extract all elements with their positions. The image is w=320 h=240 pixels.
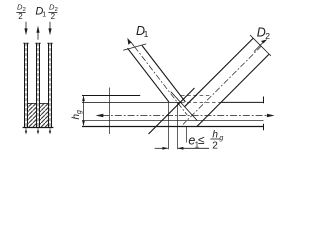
small reaction arrow middle bbox=[37, 128, 39, 134]
chord bottom edge bbox=[82, 126, 264, 128]
brace D2 bbox=[149, 35, 271, 134]
label e1 <= hg/2 bbox=[188, 129, 223, 151]
plate member middle (D1) bbox=[37, 43, 40, 128]
svg-text:2: 2 bbox=[51, 12, 56, 21]
svg-text:2: 2 bbox=[18, 12, 23, 21]
force arrow up middle bbox=[36, 26, 39, 40]
small reaction arrow left bbox=[25, 128, 27, 134]
svg-text:≤: ≤ bbox=[198, 133, 205, 147]
chord right end bbox=[263, 97, 265, 104]
svg-text:1: 1 bbox=[144, 29, 149, 39]
chord top edge bbox=[82, 95, 211, 97]
member top caps bbox=[23, 42, 52, 44]
svg-text:2: 2 bbox=[212, 140, 218, 151]
plate member right (D2/2) bbox=[49, 43, 52, 128]
station tick on chord bbox=[109, 88, 111, 135]
hatched packing plate left bbox=[28, 103, 37, 128]
label D1 center bbox=[35, 5, 46, 18]
chord centerline with end arrows bbox=[96, 114, 275, 117]
small reaction arrow right bbox=[49, 128, 51, 134]
label arrow D2 bbox=[254, 25, 270, 51]
label arrow D1 bbox=[127, 24, 148, 46]
svg-text:1: 1 bbox=[42, 12, 46, 19]
e1 dimension arrows bbox=[155, 147, 209, 150]
label D2/2 fraction left bbox=[16, 2, 25, 21]
chord web line bbox=[82, 101, 264, 103]
e1 dimension extension lines bbox=[169, 103, 178, 149]
brace D1 bbox=[123, 44, 187, 115]
plate member left (D2/2) bbox=[25, 43, 28, 128]
h_g dimension bbox=[71, 96, 85, 126]
force arrow down right bbox=[48, 22, 51, 36]
label D2/2 fraction right bbox=[48, 2, 57, 21]
extension line at text bbox=[186, 127, 188, 143]
force arrow down left bbox=[24, 22, 27, 36]
svg-text:2: 2 bbox=[265, 31, 270, 41]
chord bottom flange inner line bbox=[82, 120, 264, 122]
hatched packing plate right bbox=[40, 103, 48, 128]
base line bbox=[23, 127, 54, 129]
